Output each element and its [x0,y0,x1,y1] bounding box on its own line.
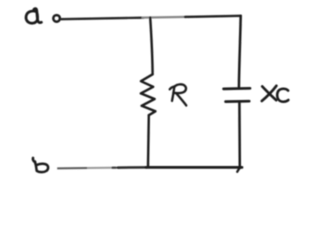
label Xc: c [277,89,288,102]
node b label hook [33,158,35,162]
wire: right branch vertical (top corner down to capacitor) [239,16,241,88]
corner tail bottom right [237,168,240,172]
capacitor C bottom plate [226,100,250,103]
resistor R1 top lead [150,18,152,75]
capacitor C top plate [224,87,250,90]
wire: top middle (faded segment) [143,16,188,19]
wire: bottom right to capacitor branch [146,166,242,169]
terminal a (open circle) [53,15,60,22]
label R [170,86,175,101]
label Xc: X second stroke [262,86,277,101]
wire: top right to corner [185,16,241,17]
wire: bottom left from b (dark grey segment) [57,167,88,169]
capacitor C bottom lead [238,102,241,168]
node b label stem and bowl [35,161,48,172]
wire: bottom middle faded segment [87,167,119,169]
label R bowl and leg [173,84,186,105]
label Xc: X first stroke [262,86,276,100]
wire: bottom approaching junction [118,166,147,169]
resistor R1 zigzag body [141,74,156,115]
wire: bottom small dark flecks [113,167,120,169]
node a label [33,9,41,23]
node a label bowl [26,11,38,23]
resistor R1 bottom lead [147,115,150,167]
wire: terminal a to node junction (top left) [61,18,144,20]
